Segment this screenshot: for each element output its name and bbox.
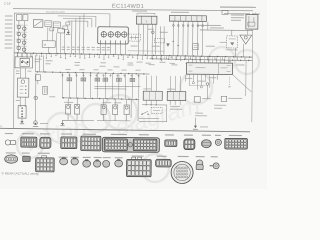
mid tiny labels [148,28,154,31]
labels along bus2 [137,61,143,64]
ground G1 [67,30,69,33]
ground G5 [194,126,197,129]
bracket line above switch strip [137,12,155,14]
wires right of solenoid row [130,99,132,118]
header note right [220,6,256,8]
long vertical wire left-mid [35,73,37,121]
distributor output wires [100,44,102,54]
relay label text [231,15,244,16]
frame right border [251,30,254,122]
connector E04 wide with bolt [102,137,159,152]
ground G3 circle-arrow [34,121,38,125]
separator rule above connector chart [0,128,250,131]
connector E01(B) [81,136,101,151]
connector row2 oval 1 [60,158,68,165]
TB bottom pins [145,100,147,105]
noise filter NF1 triangle [240,35,252,44]
label above switch strip [132,10,147,11]
tiny marks in mid band [75,64,80,67]
relay R2 pins from bus [17,53,19,57]
ECU pin risers [188,60,190,63]
component box right of strip pins [193,44,199,50]
connector B03(A) oval [5,155,18,164]
bus 4 wire [62,98,139,100]
wire to ground right [194,118,196,126]
link lines under valve row [94,85,140,87]
header rule [13,9,253,11]
junction circles below ECU [192,82,194,84]
link line under right solenoids [97,120,130,122]
connector strip CS1 lower left [18,106,26,119]
TB pins top [145,76,147,91]
tiny labels below bus1 [75,61,81,64]
extra connector stubs near sensor [63,26,68,30]
connector row2 oval 6 [115,160,123,167]
distributor block D1 with coils [98,27,129,44]
solenoid box TB2 [167,91,186,100]
switch SW2 symbol [142,111,148,114]
connector B/O1(A) [21,137,37,147]
wire from strip area to relay bus [207,22,209,30]
right inner vertical wire [245,60,247,96]
verticals bus3 to bus4 [61,73,63,98]
nested feed lines from top frame [58,15,96,17]
throttle sensor dashed box [151,107,162,113]
label right of ECU [236,63,245,66]
left margin wire code labels [5,15,13,16]
junction block J1 small boxes [16,15,22,21]
connector E09 grid [225,138,248,149]
solenoid row S1..S5 [65,104,70,114]
tiny text mid right [195,112,203,115]
riser wires to main bus [71,21,73,53]
frame left border [13,13,14,129]
sensor cluster drop wires [47,27,49,40]
bus segment top right [200,29,253,31]
connector E10 large grid with tabs [132,157,136,160]
connector E05 small [165,140,177,147]
left column junction circles [17,25,20,28]
capacitor C1 [35,75,40,81]
sensor connector pair B [53,22,60,28]
EFI main relay R1 [246,15,258,30]
lower link lines [139,118,159,120]
sensor VS1 box with diagonal [33,20,43,28]
ECU U1 box [186,63,232,75]
connector pair C [58,28,65,33]
ground bar under solenoids [62,119,94,121]
bus stub connectors below [17,53,19,55]
connector B/O1(B) [40,137,51,148]
diode box D2 dashed [227,36,238,48]
labels above solenoids [64,101,73,104]
watermark circles and swirls [17,47,259,182]
labels right of TB2 [170,105,180,108]
ground G4 [62,121,64,124]
header note right second line [224,13,250,14]
bus junction dots [17,52,19,54]
relay R2 label [35,58,42,61]
bus3 tick pairs below [61,74,63,77]
filter wires to bus [235,48,237,57]
bus1 to bus2 link ticks [152,55,154,59]
ground G2 [21,119,23,122]
check valve row V1..V6 [67,78,69,81]
connector E07 oval [201,140,211,148]
connector E13 capped [196,160,202,166]
tiny box right of junction [49,95,55,98]
connector chart labels row 1 [5,133,13,134]
labels above lower bus [65,68,70,71]
connector key B01 [5,140,10,145]
sensor connector pair A [45,21,52,27]
ignition switch SW1 strip [136,16,157,24]
label above check connector strip [171,12,189,13]
diagonal wire from ECU corner [232,75,251,93]
text block right [214,105,226,106]
frame top-left line [14,12,95,15]
distributor pin hatches [100,40,102,43]
throttle dashed box TB0 [155,38,165,43]
left column wire stubs [16,24,27,26]
connector chart labels row 2 middle [59,157,68,158]
labels below ECU [185,77,192,80]
connector row2 oval 5 [103,160,110,167]
connector E01(A) [61,137,77,149]
relay wire down [251,29,253,30]
connector B04 large grid [42,156,47,159]
connector E11 wide low [156,159,172,167]
link line below ECU [189,85,205,87]
connector E08 round [215,139,221,145]
wire pair fuse block down [19,97,21,107]
connector chart labels row 2 left [6,152,16,153]
secondary bus right [150,59,253,61]
main bus wire [14,53,252,57]
connector row2 oval 2 [71,158,78,165]
ECU internal marks [189,64,193,66]
resistor box RB1 dashed [128,34,140,41]
risers from relay zone to bus3 [34,55,36,72]
connector chart labels row 2 right [132,155,144,156]
connector E12 round multi-pin [171,161,193,183]
junction arrow symbol [166,43,170,47]
hatch box HB1 [43,86,48,94]
check connector strip CN1 [169,15,206,21]
connector row2 oval 3 [83,160,91,167]
wire pair relay to fuse block [19,68,21,78]
junction J2 circle [34,96,37,99]
fusible link block FL1 [17,78,29,97]
wire code labels above bus [62,46,65,49]
joining line under TBs [142,104,167,106]
connector row2 oval 4 [93,160,100,167]
riser wires into distributor [87,21,89,27]
component stack right2 [221,96,227,101]
extra verticals right of SW1 [159,26,161,54]
motor wire to bus [48,47,50,53]
component stack right1 [194,97,200,103]
top frame elbow to distributor [96,13,110,15]
SW1 pin wires down [138,24,140,54]
lower bus wire [35,72,149,74]
motor M1 box [42,41,55,48]
labels right mid band [226,49,238,50]
text right of CN1 pins [197,25,221,26]
connector B03(B) small dark [23,156,31,162]
relay R2 box outer [15,57,33,68]
short link line [128,50,165,52]
CN1 pin wires with junction circles [172,21,174,55]
relay R2 inner contacts [20,58,30,66]
junction circle pair [151,31,154,34]
dashed vertical right of ECU [228,77,230,87]
labels left of bus3 [46,59,53,62]
left column wire pair [18,21,20,53]
tiny box top right [222,10,228,14]
solenoid box TB1 [143,91,162,100]
TB labels [143,87,151,90]
ECU internal divider [217,63,219,74]
connector E14 keyhole [213,163,219,169]
connector E06 [184,139,195,150]
ECU bottom pin wires [184,75,186,82]
